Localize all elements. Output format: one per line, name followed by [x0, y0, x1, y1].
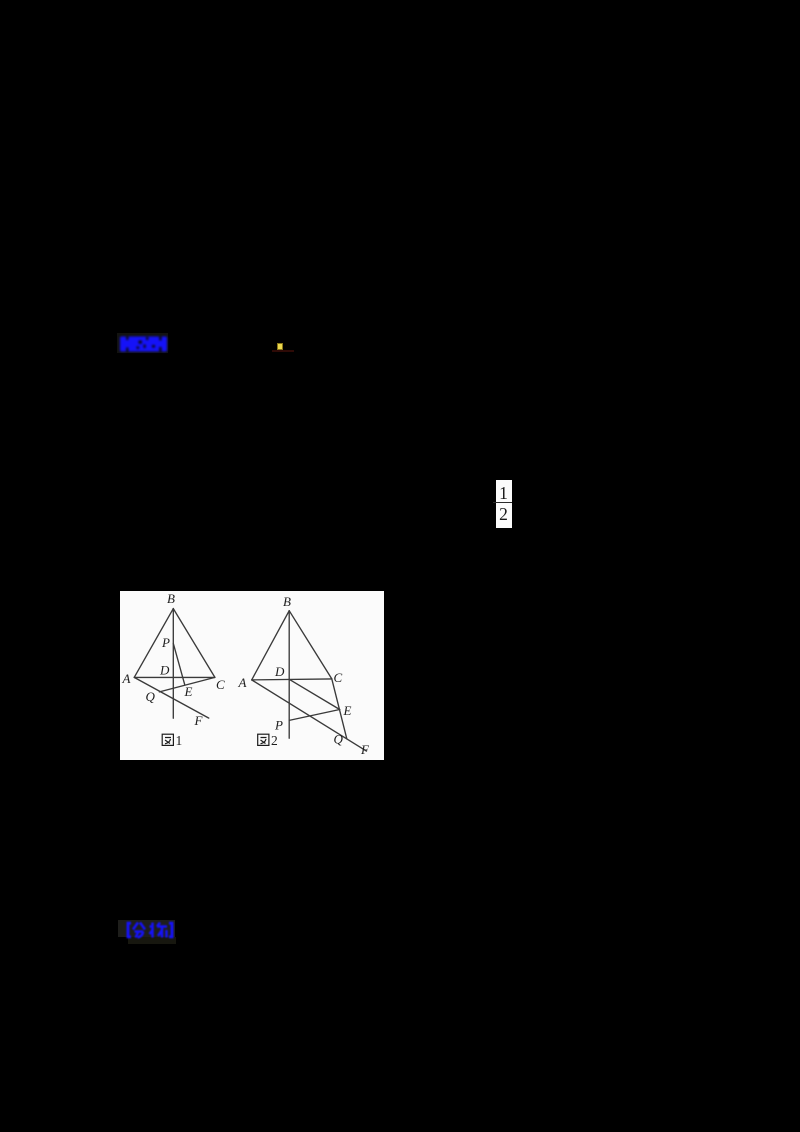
fig1 median BD extended vertical [172, 609, 174, 719]
svg-text:Q: Q [334, 732, 344, 747]
svg-text:A: A [238, 675, 247, 690]
fig2 line A to F [252, 680, 367, 751]
faint dark backing box behind first blue label [117, 333, 168, 353]
svg-text:A: A [122, 671, 131, 686]
svg-text:2: 2 [271, 733, 278, 748]
fig1 triangle side AB [134, 609, 173, 678]
fig2 triangle side BC [289, 611, 332, 679]
faint dark backing box behind second blue label [118, 920, 175, 937]
svg-text:F: F [194, 713, 204, 728]
svg-text:B: B [283, 594, 291, 609]
fig2 segment C through E to Q [332, 679, 347, 739]
faint dark backing box extension below second blue label [128, 937, 176, 944]
svg-text:C: C [334, 670, 343, 685]
fig2 caption 图 glyph drawn as box [258, 734, 269, 745]
fig2 triangle side AB [252, 611, 290, 680]
fig1 triangle side BC [173, 609, 215, 678]
fig2 segment PE [289, 710, 340, 721]
blue label 【考点】 drawn as dense vector blob [118, 334, 170, 354]
svg-text:D: D [159, 663, 170, 678]
svg-text:P: P [274, 718, 283, 733]
fig2 median BD extended vertical [288, 611, 290, 739]
fig2 segment DE [289, 679, 340, 709]
fig1 triangle base AC [134, 676, 215, 678]
denominator 2 [496, 505, 512, 524]
fig1 caption 图 glyph drawn as box [162, 734, 173, 745]
fig1 line A through Q to F [134, 677, 209, 718]
svg-text:1: 1 [176, 733, 183, 748]
svg-text:E: E [184, 684, 193, 699]
small yellow icon [277, 343, 283, 350]
svg-text:C: C [216, 677, 225, 692]
svg-text:D: D [274, 664, 285, 679]
svg-text:P: P [161, 635, 170, 650]
white geometry figure panel [120, 591, 384, 760]
fraction bar [493, 502, 512, 503]
svg-text:F: F [360, 742, 370, 757]
faint dark red underline under icon row [272, 350, 294, 352]
fig2 triangle base AC [252, 679, 332, 680]
svg-text:E: E [343, 703, 352, 718]
white fraction box 1/2 [496, 480, 512, 528]
numerator 1 [496, 484, 512, 503]
fig1 segment C through E to Q [159, 677, 215, 692]
svg-text:B: B [167, 591, 175, 606]
fig1 segment PE [173, 643, 185, 685]
blue label 【分析】 drawn as vector strokes [124, 921, 176, 939]
svg-text:Q: Q [146, 689, 156, 704]
